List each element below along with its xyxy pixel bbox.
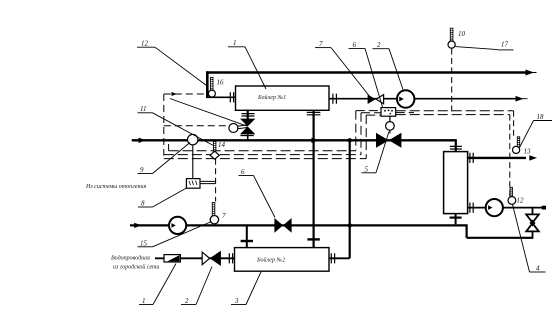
svg-text:11: 11 bbox=[140, 105, 146, 113]
pump 1 bbox=[397, 90, 414, 107]
svg-text:13: 13 bbox=[524, 148, 532, 156]
arrow return pipe start bbox=[139, 138, 147, 143]
dashed vertical from thermometer T10 bbox=[451, 49, 453, 114]
control line bundle verticals up bbox=[355, 111, 357, 151]
positioner box bbox=[381, 108, 396, 117]
svg-text:14: 14 bbox=[218, 141, 226, 149]
svg-text:17: 17 bbox=[501, 41, 509, 49]
svg-text:Из системы отопления: Из системы отопления bbox=[85, 184, 146, 190]
end square on pump3 line bbox=[542, 206, 546, 210]
arrow boiler1 outlet end bbox=[516, 96, 524, 102]
HX right-top flanges bbox=[470, 153, 473, 163]
thermometer T13 bbox=[513, 137, 520, 154]
svg-text:3: 3 bbox=[234, 297, 239, 305]
HX top flanges bbox=[450, 146, 462, 149]
boiler1 outlet pipe to right arrow bbox=[329, 98, 517, 100]
svg-text:6: 6 bbox=[241, 168, 245, 176]
svg-text:15: 15 bbox=[140, 239, 148, 247]
diamond sensor under return pipe bbox=[210, 142, 219, 160]
svg-text:4: 4 bbox=[536, 265, 540, 273]
heat exchanger HX bbox=[444, 152, 468, 214]
svg-text:1: 1 bbox=[233, 39, 237, 47]
step down at right bbox=[466, 224, 468, 238]
svg-text:7: 7 bbox=[222, 212, 226, 220]
V11 actuator circle bbox=[229, 124, 238, 133]
bold tee tick HX bottom stem bbox=[450, 217, 462, 219]
vertical pipe boiler2 outlet up to return pipe bbox=[349, 140, 351, 258]
control line bundle corner stub bbox=[168, 144, 170, 151]
svg-text:2: 2 bbox=[377, 41, 381, 49]
boiler1 outlet flanges bbox=[333, 94, 337, 104]
svg-text:18: 18 bbox=[537, 113, 545, 121]
svg-text:7: 7 bbox=[319, 40, 323, 48]
boiler2 inlet flanges bbox=[229, 253, 232, 263]
vertical from pump line to valve V4 bbox=[532, 208, 534, 215]
HX bottom stem bbox=[455, 214, 457, 225]
dashed enclosure top edge bbox=[164, 93, 207, 95]
check valve bbox=[164, 255, 180, 262]
wire box to dashed vertical (double) bbox=[200, 181, 216, 183]
svg-text:8: 8 bbox=[141, 200, 145, 208]
flange ticks bbox=[229, 92, 473, 263]
dashed vertical diamond sensor to thermometer T7 bbox=[215, 159, 217, 202]
boiler 1 bbox=[236, 86, 330, 110]
dashed impulse line to valve actuator bbox=[164, 125, 229, 127]
wire gauge circle to box bbox=[192, 146, 194, 179]
arrow at junction x=313 bbox=[312, 138, 320, 143]
pump 3 bbox=[486, 199, 503, 216]
riser from bottom pipe to boiler2 bbox=[246, 225, 248, 247]
dashed vertical to thermometer T13 bbox=[513, 111, 515, 137]
junction dot return pipe / boiler2 outlet riser bbox=[348, 138, 352, 142]
svg-text:10: 10 bbox=[458, 30, 466, 38]
gate valve V2 bbox=[202, 252, 209, 265]
arrow HX outlet end bbox=[529, 155, 537, 160]
bottom pipe y=225.4 bbox=[130, 224, 467, 226]
valve V4 bottom stem bbox=[532, 231, 534, 239]
valve after boiler1 (gate) bbox=[368, 94, 376, 104]
boiler1 bottom pipe B flanges bbox=[307, 112, 321, 114]
corner into HX top bbox=[455, 139, 457, 151]
svg-text:Бойлер №1: Бойлер №1 bbox=[257, 94, 286, 101]
pump 2 bbox=[169, 217, 186, 234]
boiler1 inlet flanges bbox=[230, 92, 233, 102]
vertical pipe boiler1 to boiler2 bbox=[313, 111, 315, 248]
boiler 2 bbox=[235, 248, 330, 272]
boiler1 inlet pipe bbox=[206, 96, 236, 98]
control valve V3 with actuator bbox=[376, 133, 401, 148]
gauge circle on return pipe bbox=[188, 134, 198, 144]
thermometer T16 at boiler1 inlet bbox=[208, 77, 215, 97]
svg-text:из городской сети: из городской сети bbox=[113, 264, 159, 271]
svg-text:Водопроводная: Водопроводная bbox=[111, 255, 150, 262]
thermometer T12 bbox=[508, 187, 516, 204]
HX right-bottom flanges bbox=[470, 203, 473, 213]
arrow on dashed enclosure top edge bbox=[172, 92, 178, 96]
control valve V11 under boiler1 bbox=[241, 110, 255, 140]
svg-text:12: 12 bbox=[141, 40, 149, 48]
boiler2 outlet pipe bbox=[329, 257, 350, 259]
top supply pipe (bold) bbox=[207, 71, 527, 74]
dashed vertical to thermometer T12 bbox=[509, 115, 511, 196]
thermometer T7 on bottom pipe bbox=[210, 203, 218, 224]
boiler2 inlet pipe y=258.3 bbox=[155, 257, 235, 259]
control line horizontals from positioner box right bbox=[396, 110, 514, 112]
svg-text:12: 12 bbox=[517, 197, 525, 205]
boiler2 outlet flanges bbox=[331, 253, 334, 263]
arrow bottom pipe start bbox=[134, 223, 141, 228]
arrow top pipe end bbox=[526, 70, 535, 76]
riser from top pipe down to boiler1 inlet bbox=[206, 71, 209, 97]
svg-text:6: 6 bbox=[353, 41, 357, 49]
svg-text:Бойлер №2: Бойлер №2 bbox=[256, 257, 285, 264]
bold tee tick riser boiler2 right bbox=[307, 238, 319, 240]
control line bundle: three dashed strokes lower horizontals bbox=[169, 150, 356, 152]
control line horizontals to positioner box left bbox=[356, 110, 382, 112]
HX bottom-right outlet to pump3 bbox=[468, 207, 544, 209]
svg-text:9: 9 bbox=[140, 166, 144, 174]
valve V6 on bottom pipe bbox=[274, 218, 291, 233]
bold return pipe y=140 bbox=[132, 139, 456, 141]
svg-text:1: 1 bbox=[142, 297, 146, 305]
bold tee tick riser boiler2 left bbox=[241, 240, 253, 242]
valve V4 vertical bbox=[526, 214, 539, 222]
HX top-right outlet (bold arrow line) bbox=[468, 157, 526, 159]
thermometer T10 top right bbox=[448, 28, 455, 48]
bottom-right pipe bbox=[467, 237, 533, 239]
dashed enclosure left edge bbox=[163, 94, 165, 156]
svg-text:16: 16 bbox=[217, 79, 225, 87]
svg-text:2: 2 bbox=[185, 297, 189, 305]
junction dot bottom pipe / boiler2 outlet riser bbox=[348, 223, 352, 227]
svg-text:5: 5 bbox=[365, 165, 369, 173]
